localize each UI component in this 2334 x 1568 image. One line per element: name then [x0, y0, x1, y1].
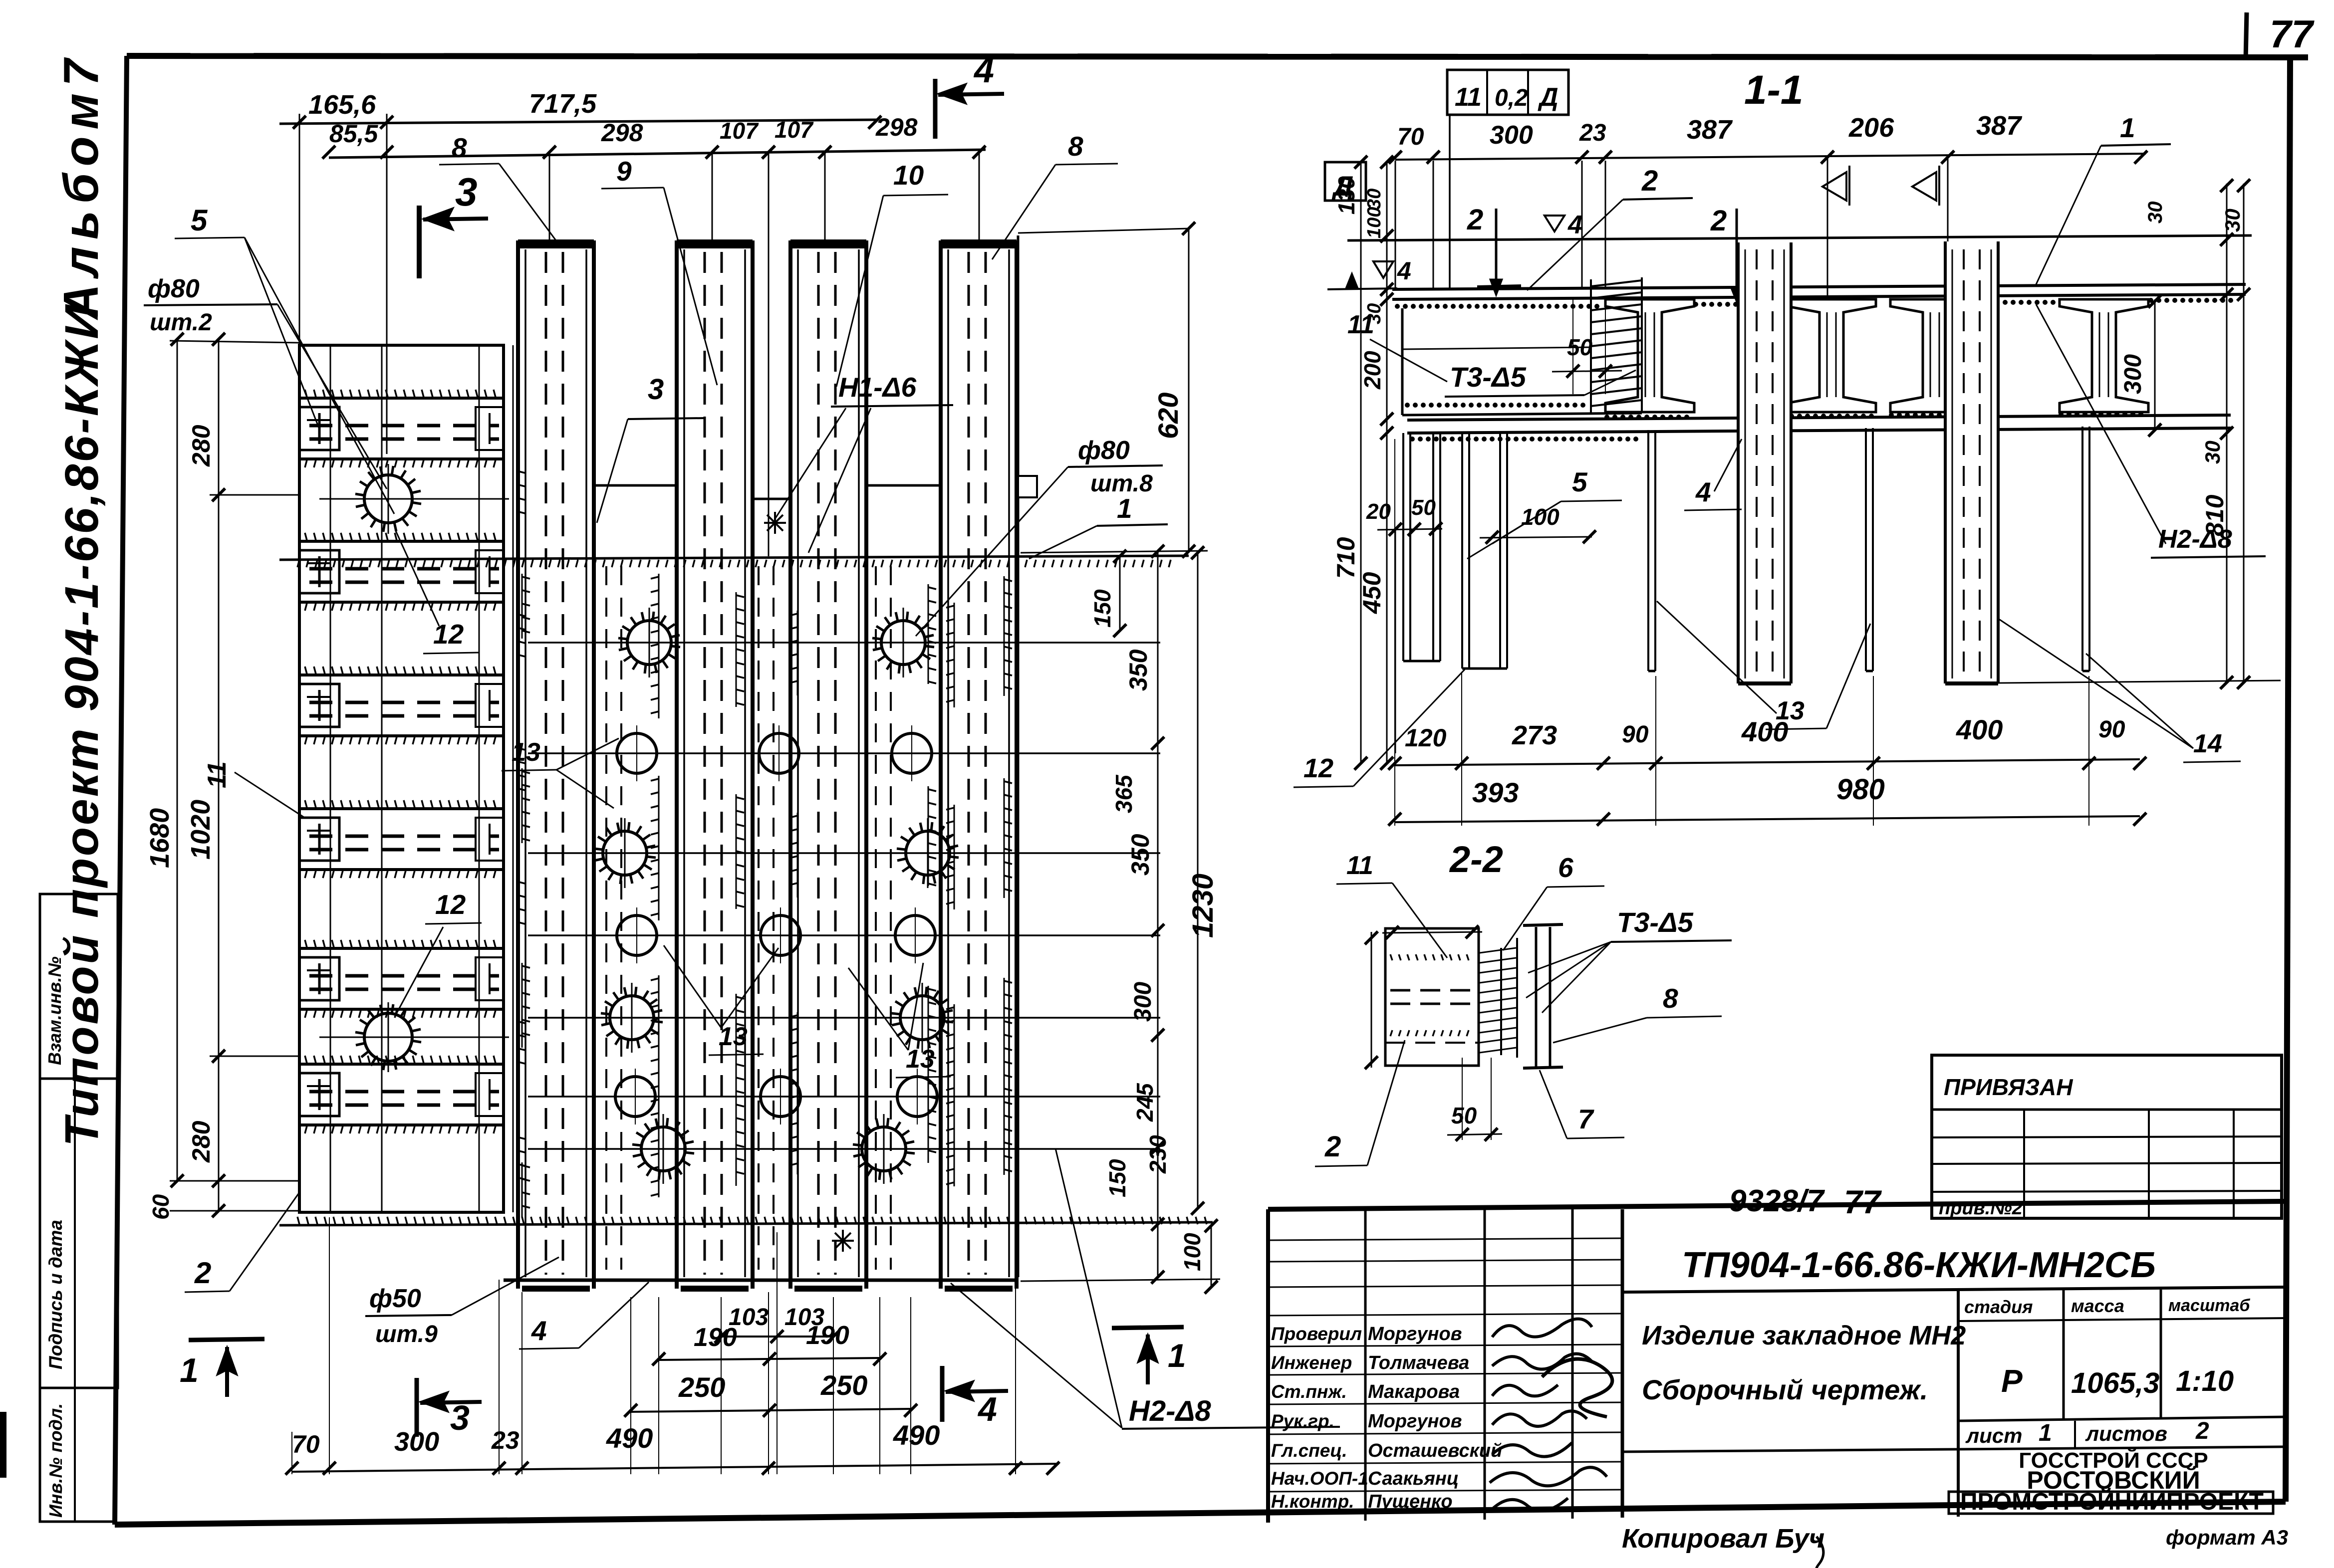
title block stadia massa masshtab: [1958, 1318, 2286, 1321]
svg-text:прив.№2: прив.№2: [1939, 1198, 2023, 1219]
svg-text:2: 2: [1641, 165, 1658, 197]
svg-text:12: 12: [435, 889, 466, 920]
dim 100 small: [1480, 537, 1592, 538]
svg-text:ф80: ф80: [1078, 436, 1130, 465]
left block outline element 2: [299, 345, 504, 1212]
hole phi50 at 1834,1875: [895, 915, 935, 955]
svg-text:150: 150: [1089, 589, 1115, 628]
section 1-1 extension lines top: [1395, 161, 1396, 289]
dim 70 300 23 490 490: [292, 1464, 1059, 1472]
svg-text:9328/7: 9328/7: [1729, 1184, 1825, 1218]
svg-text:ПРИВЯЗАН: ПРИВЯЗАН: [1944, 1074, 2073, 1100]
svg-text:298: 298: [601, 119, 643, 147]
svg-text:2: 2: [1710, 205, 1727, 237]
svg-text:77: 77: [2270, 12, 2315, 56]
section top plate: [1392, 284, 2246, 289]
weld seams left of beam1: [521, 574, 523, 639]
svg-text:230: 230: [1145, 1135, 1171, 1174]
title block outline: [1268, 1201, 2286, 1209]
svg-text:30: 30: [2221, 209, 2244, 232]
section 1-1 bottom extension lines: [1461, 673, 1462, 826]
svg-text:Осташевский: Осташевский: [1368, 1440, 1502, 1461]
svg-text:13: 13: [512, 738, 540, 767]
dim 103 103: [721, 1336, 833, 1338]
svg-text:7: 7: [1578, 1104, 1594, 1134]
svg-text:387: 387: [1976, 111, 2023, 141]
svg-text:100: 100: [1179, 1233, 1205, 1271]
stud dots above channel bottom: [1405, 403, 1410, 408]
svg-text:250: 250: [678, 1371, 725, 1403]
svg-text:10: 10: [893, 160, 924, 191]
svg-text:50: 50: [1451, 1103, 1477, 1128]
svg-text:350: 350: [1126, 834, 1154, 876]
svg-text:Саакьянц: Саакьянц: [1368, 1468, 1459, 1489]
channel beam 1 plan: [518, 239, 594, 248]
svg-text:Гл.спец.: Гл.спец.: [1271, 1440, 1347, 1461]
svg-text:50: 50: [1567, 334, 1593, 360]
top plate stud dots: [1395, 304, 1400, 309]
svg-text:4: 4: [531, 1315, 547, 1346]
svg-text:400: 400: [1741, 716, 1788, 747]
svg-text:0,2: 0,2: [1495, 85, 1528, 111]
weld triangle marks: [1822, 172, 1846, 201]
svg-text:Инв.№ подл.: Инв.№ подл.: [45, 1403, 66, 1518]
svg-text:245: 245: [1132, 1083, 1158, 1122]
base plate bottom weld line with hatching: [279, 1222, 1213, 1225]
section lower plate element 4: [1407, 415, 2231, 420]
section mark 4 bottom: [940, 1366, 945, 1422]
left U anchor pin 1: [1402, 433, 1404, 661]
svg-text:стадия: стадия: [1964, 1297, 2033, 1317]
svg-text:70: 70: [292, 1430, 320, 1458]
svg-text:30: 30: [2201, 441, 2224, 464]
welding mark box 11 02 D: [1447, 70, 1568, 115]
hole phi50 at 1838,2198: [897, 1077, 937, 1117]
svg-text:490: 490: [606, 1422, 653, 1454]
svg-text:30: 30: [2144, 202, 2166, 224]
svg-text:масштаб: масштаб: [2168, 1296, 2250, 1315]
hole row centerline y1875: [528, 934, 1160, 936]
svg-text:Изделие закладное МН2: Изделие закладное МН2: [1642, 1321, 1966, 1350]
hole phi80 at 1266,2040: [610, 996, 654, 1040]
svg-text:190: 190: [806, 1321, 849, 1350]
section mark 4 top: [933, 79, 938, 139]
section top surface line: [1347, 235, 2252, 240]
anchor hole circle phi80 lower: [364, 1013, 412, 1061]
asterisk mark upper: [764, 522, 786, 524]
svg-text:5: 5: [1572, 466, 1588, 497]
left block plate strip 2: [299, 540, 504, 543]
hole phi80 at 1301,1288: [627, 621, 671, 665]
svg-text:13: 13: [719, 1022, 748, 1051]
svg-text:90: 90: [2098, 716, 2125, 743]
title block list row: [1622, 1447, 2286, 1452]
filled level triangle far left: [1346, 273, 1358, 288]
channel beam 4 plan: [941, 239, 1017, 248]
anchor pin 5: [2081, 427, 2083, 671]
left block plate strip 6: [299, 1063, 504, 1066]
hole row centerline y2040: [528, 1017, 1160, 1019]
svg-text:400: 400: [1956, 714, 2003, 745]
svg-text:ф80: ф80: [148, 274, 200, 303]
left block plate strip 3: [299, 673, 504, 676]
svg-text:4: 4: [1397, 257, 1411, 285]
svg-text:300: 300: [2120, 354, 2146, 394]
svg-text:30: 30: [1364, 303, 1385, 324]
section mark 3 bottom: [415, 1378, 419, 1437]
svg-text:2: 2: [1324, 1130, 1341, 1163]
svg-text:Т3-Δ5: Т3-Δ5: [1617, 906, 1694, 938]
svg-text:273: 273: [1512, 720, 1557, 750]
svg-text:77: 77: [1844, 1183, 1882, 1220]
svg-text:23: 23: [1579, 120, 1606, 146]
svg-text:190: 190: [694, 1323, 737, 1352]
svg-text:980: 980: [1836, 773, 1885, 806]
title block verticals left part: [1364, 1209, 1367, 1521]
svg-text:Подпись и дата: Подпись и дата: [45, 1220, 66, 1369]
svg-text:Сборочный чертеж.: Сборочный чертеж.: [1642, 1374, 1928, 1405]
svg-text:4: 4: [973, 50, 994, 90]
section mark 1 bottom left: [189, 1339, 264, 1340]
svg-text:6: 6: [1558, 852, 1573, 883]
svg-text:60: 60: [148, 1194, 174, 1220]
weld seam tick columns mid area: [658, 574, 660, 718]
svg-text:393: 393: [1472, 777, 1519, 808]
dim 300 beam height: [2154, 299, 2156, 432]
svg-text:2: 2: [194, 1256, 211, 1290]
svg-text:107: 107: [720, 118, 759, 144]
left block plate strip 1: [299, 397, 504, 400]
svg-text:листов: листов: [2085, 1422, 2167, 1445]
section 2-2 dim 50: [1447, 1134, 1502, 1135]
svg-text:8: 8: [1068, 131, 1083, 162]
vertical channel column B in section: [1945, 241, 1998, 683]
dim line 85,5 / 298 107 107 298: [329, 150, 986, 158]
svg-text:Р: Р: [2001, 1363, 2023, 1399]
svg-text:50: 50: [1411, 495, 1436, 520]
svg-text:23: 23: [491, 1426, 519, 1454]
svg-text:Толмачева: Толмачева: [1368, 1352, 1469, 1373]
svg-text:ф50: ф50: [369, 1284, 421, 1313]
svg-text:250: 250: [820, 1369, 867, 1401]
svg-text:130: 130: [1333, 176, 1359, 215]
svg-text:165,6: 165,6: [308, 90, 376, 120]
dim line 165,6 / 717,5: [279, 120, 878, 124]
svg-text:4: 4: [977, 1390, 997, 1428]
pins bottom extension line: [1946, 680, 2281, 683]
hole row centerline y2198: [528, 1096, 1160, 1098]
signatures scribbles: [1492, 1319, 1592, 1337]
base plate right edge: [1017, 235, 1020, 476]
svg-text:1: 1: [180, 1351, 199, 1389]
svg-text:2: 2: [2195, 1418, 2209, 1444]
svg-text:100: 100: [1521, 504, 1559, 530]
svg-text:формат А3: формат А3: [2166, 1526, 2288, 1549]
hole phi50 at 1273,2198: [615, 1077, 655, 1117]
svg-text:4: 4: [1695, 476, 1711, 507]
I-beam 3 section: [1890, 299, 1979, 412]
hole row centerline y1288: [528, 642, 1160, 644]
svg-text:14: 14: [2193, 729, 2222, 758]
svg-text:1:10: 1:10: [2176, 1365, 2234, 1397]
section 1-1 left dim chain: [1360, 161, 1362, 763]
svg-text:300: 300: [1130, 982, 1156, 1022]
svg-text:1-1: 1-1: [1744, 67, 1804, 113]
svg-text:1: 1: [1117, 493, 1132, 524]
svg-text:300: 300: [1490, 121, 1533, 150]
svg-text:70: 70: [1397, 124, 1424, 150]
channel beam 3 plan: [790, 239, 866, 248]
svg-text:1: 1: [2120, 112, 2135, 143]
asterisk mark lower: [832, 1240, 854, 1242]
hole phi80 at 1848,2040: [900, 996, 944, 1040]
hole phi50 at 1564,1875: [761, 915, 800, 955]
channel box weld hatch right edge: [1590, 279, 1592, 413]
drawing frame border: [127, 56, 2308, 57]
left stamp box Vzam.inv: [40, 894, 118, 1079]
svg-text:Т3-Δ5: Т3-Δ5: [1450, 361, 1527, 393]
stud dots under beam flanges: [1604, 415, 1609, 420]
hole phi80 at 1329,2303: [641, 1127, 685, 1171]
svg-text:Н2-Δ8: Н2-Δ8: [1129, 1395, 1211, 1427]
svg-text:387: 387: [1687, 115, 1733, 145]
svg-text:Ст.пнж.: Ст.пнж.: [1271, 1381, 1347, 1402]
svg-text:Макарова: Макарова: [1368, 1381, 1460, 1402]
left block plate strip 4: [299, 807, 504, 810]
svg-text:шт.9: шт.9: [375, 1321, 438, 1347]
title block designation cell: [1622, 1287, 2286, 1292]
svg-text:13: 13: [906, 1045, 935, 1074]
channel box element 11 left: [1401, 308, 1404, 415]
hole phi80 at 1252,1710: [603, 831, 647, 875]
svg-text:ТП904-1-66.86-КЖИ-МН2СБ: ТП904-1-66.86-КЖИ-МН2СБ: [1682, 1245, 2156, 1285]
svg-text:365: 365: [1111, 774, 1137, 813]
svg-text:710: 710: [1332, 537, 1360, 579]
svg-text:3: 3: [450, 1398, 470, 1437]
svg-text:3: 3: [455, 170, 478, 214]
I-beam 1 section: [1605, 299, 1694, 412]
plate edge between beams 1-2: [594, 484, 677, 487]
dim 1020 / 280 / 280 / 60 vertical: [218, 339, 220, 1212]
section mark 3 top: [417, 206, 422, 278]
svg-text:350: 350: [1124, 649, 1152, 691]
left block inner verticals: [330, 345, 331, 1212]
dim 20 50 small: [1377, 529, 1442, 530]
svg-text:масса: масса: [2071, 1296, 2124, 1316]
left block plate strip 5: [299, 947, 504, 950]
svg-text:Нач.ООП-1: Нач.ООП-1: [1271, 1468, 1368, 1489]
section 1-1 top dim line 70 300 23 387 206 387: [1395, 154, 2146, 160]
svg-text:Рук.гр.: Рук.гр.: [1271, 1411, 1334, 1431]
plate edge between beams 2-3: [753, 498, 790, 500]
I-beam 4 section: [2060, 299, 2148, 412]
scan artifact left edge: [0, 1412, 6, 1478]
level mark nabla4 mid: [1545, 216, 1564, 231]
anchor pin 4: [1865, 428, 1867, 671]
title block horizontal rows left: [1268, 1238, 1622, 1240]
svg-text:11: 11: [1346, 851, 1373, 880]
svg-text:1: 1: [2039, 1420, 2052, 1446]
svg-text:Копировал Буч: Копировал Буч: [1622, 1524, 1824, 1554]
section 2-2 right bar: [1535, 927, 1538, 1067]
svg-text:490: 490: [893, 1419, 940, 1451]
base plate top right extension line: [1018, 228, 1189, 233]
dim 190 190: [659, 1358, 880, 1360]
hole phi50 at 1561,1510: [759, 733, 799, 773]
plate edge between beams 3-4: [866, 484, 941, 487]
vertical channel column A in section: [1738, 242, 1791, 683]
section 2-2 vertical plates: [1478, 945, 1480, 1058]
svg-text:810: 810: [2201, 494, 2229, 536]
svg-text:1680: 1680: [145, 808, 175, 868]
hole phi50 at 1564,2198: [761, 1077, 800, 1117]
svg-text:Пущенко: Пущенко: [1368, 1491, 1453, 1512]
I-beam 2 section: [1787, 299, 1876, 412]
privyazan table: [1932, 1055, 2282, 1218]
svg-text:8: 8: [452, 132, 467, 163]
anchor hole circle phi80 upper: [364, 475, 412, 523]
svg-text:Инженер: Инженер: [1271, 1352, 1352, 1373]
base plate top weld line with hatching: [279, 556, 1189, 560]
svg-text:280: 280: [187, 425, 215, 467]
svg-text:620: 620: [1152, 393, 1184, 439]
svg-text:2-2: 2-2: [1449, 839, 1503, 880]
section 1-1 bottom dim line 120 273 90 400 400 90: [1395, 759, 2140, 765]
svg-text:150: 150: [1104, 1159, 1130, 1197]
svg-text:Д: Д: [1538, 83, 1558, 112]
svg-text:ПРОМСТРОЙНИИПРОЕКТ: ПРОМСТРОЙНИИПРОЕКТ: [1960, 1488, 2264, 1515]
svg-text:298: 298: [875, 113, 918, 141]
hole phi50 at 1276,1875: [617, 915, 657, 955]
svg-text:5: 5: [191, 204, 208, 237]
dim 100 bottom right: [1211, 1224, 1212, 1288]
svg-text:Альбом7: Альбом7: [53, 52, 108, 321]
bottom extension lines: [291, 1432, 292, 1474]
hole row centerline y1710: [528, 852, 1160, 854]
weld box leader leg: [1449, 114, 1451, 288]
dim 620 right: [1188, 227, 1190, 551]
svg-text:12: 12: [1303, 753, 1333, 783]
dim 250 250: [631, 1409, 911, 1412]
svg-text:4: 4: [1567, 211, 1582, 239]
svg-text:3: 3: [648, 373, 664, 406]
svg-text:100: 100: [1364, 207, 1385, 238]
svg-text:Моргунов: Моргунов: [1368, 1411, 1462, 1432]
svg-text:120: 120: [1405, 724, 1447, 752]
title block right verticals: [1957, 1291, 1960, 1517]
right chain connector lines: [1021, 551, 1208, 553]
svg-text:Моргунов: Моргунов: [1368, 1324, 1462, 1344]
svg-text:Проверил: Проверил: [1271, 1324, 1362, 1344]
svg-text:717,5: 717,5: [529, 89, 597, 119]
mark box D left: [1325, 162, 1366, 201]
svg-text:11: 11: [1455, 83, 1482, 112]
svg-text:11: 11: [203, 761, 232, 788]
right chain 350 350 300 245 230: [1157, 551, 1159, 1277]
hole phi50 at 1827,1510: [892, 733, 932, 773]
svg-text:Взам.инв.№: Взам.инв.№: [44, 956, 65, 1065]
svg-text:9: 9: [616, 156, 632, 187]
left stamp box Inv.No podl: [40, 1388, 116, 1522]
svg-text:шт.2: шт.2: [150, 309, 212, 336]
svg-text:1020: 1020: [186, 800, 216, 860]
svg-text:Н1-Δ6: Н1-Δ6: [838, 372, 917, 403]
channel beam 2 plan: [677, 239, 753, 248]
hole phi80 at 1810,1288: [881, 621, 925, 665]
dim 1680 vertical: [177, 339, 178, 1181]
svg-text:лист: лист: [1965, 1424, 2023, 1447]
svg-text:1230: 1230: [1187, 874, 1219, 938]
svg-text:85,5: 85,5: [329, 120, 379, 148]
left block weld seams right edge: [517, 468, 518, 523]
stud dots lower plate: [1410, 437, 1415, 442]
level nabla4 far left: [1373, 261, 1393, 278]
svg-text:280: 280: [187, 1120, 215, 1163]
svg-text:1: 1: [1168, 1337, 1186, 1374]
svg-text:8: 8: [1663, 983, 1678, 1014]
hidden dashed lines between beams: [605, 566, 607, 1270]
hole phi50 at 1276,1510: [617, 733, 657, 773]
svg-text:Н.контр.: Н.контр.: [1271, 1491, 1354, 1512]
section 2-2 block hatched: [1385, 928, 1479, 1066]
anchor pin 3: [1647, 430, 1649, 671]
left U anchor pin 2: [1461, 433, 1463, 669]
hole row centerline y1510: [528, 752, 1160, 754]
svg-text:107: 107: [775, 117, 814, 143]
hole phi80 at 1771,2303: [862, 1127, 906, 1171]
dim 1230 right: [1197, 551, 1199, 1210]
svg-text:2: 2: [1467, 204, 1483, 236]
svg-text:1065,3: 1065,3: [2071, 1367, 2159, 1399]
left stamp box Podpis i data: [40, 1079, 118, 1388]
left extension lines: [170, 341, 299, 343]
section 1-1 total dim line 393 980: [1395, 816, 2140, 822]
svg-text:200: 200: [1359, 351, 1385, 390]
base plate bottom edge: [504, 1279, 1018, 1282]
section 2-2 top dim: [1382, 932, 1482, 933]
hole row centerline y2303: [528, 1148, 1160, 1150]
svg-text:450: 450: [1358, 572, 1386, 614]
section 1-1 right dim chain: [2226, 184, 2228, 682]
svg-text:30: 30: [1364, 189, 1385, 210]
hole phi80 at 1859,1710: [906, 831, 950, 875]
dim 150 right top: [1119, 555, 1121, 631]
svg-text:90: 90: [1622, 721, 1649, 748]
svg-text:206: 206: [1848, 113, 1894, 143]
section mark 1 bottom right: [1112, 1327, 1184, 1328]
